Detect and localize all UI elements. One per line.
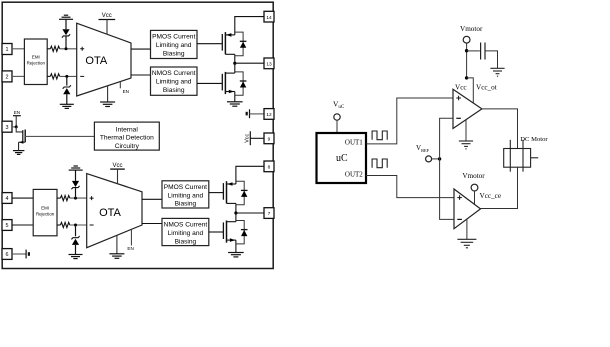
wire PMOS block to Q1 gate: [197, 43, 222, 45]
NMOS Current Limiting and Biasing block (top): [151, 67, 198, 95]
VuC terminal: [334, 114, 340, 120]
wire pin1 to EMI box: [12, 48, 24, 50]
svg-text:Vmotor: Vmotor: [462, 172, 485, 180]
node D: [74, 224, 77, 227]
wire capacitor to ground: [485, 51, 498, 68]
battery cell symbol (pin 12): [247, 109, 250, 118]
Vmotor terminal (top): [463, 36, 470, 43]
wire motor to U2 output: [481, 167, 518, 208]
Vmotor terminal (bottom): [471, 184, 478, 191]
node EN (junction dot): [15, 125, 18, 128]
svg-text:5: 5: [6, 223, 9, 229]
wire NMOS block to Q2 gate: [197, 82, 222, 84]
ground (U1): [459, 120, 473, 149]
wire pin4 to EMI box 2: [12, 197, 33, 199]
wire Q4 source to ground: [235, 240, 237, 252]
body diode D7: [236, 181, 248, 205]
svg-text:9: 9: [268, 137, 271, 143]
zener diode D6: [71, 225, 79, 255]
Vcc rail (OTA2): [110, 163, 125, 184]
wire node to U1 Vcc: [467, 78, 474, 103]
svg-text:6: 6: [6, 252, 9, 258]
wire node to pin 13: [235, 62, 264, 64]
svg-text:EN: EN: [14, 110, 20, 115]
ground (U2): [457, 219, 476, 248]
svg-text:Biasing: Biasing: [163, 87, 185, 94]
node OUT1 (junction dot): [233, 62, 236, 65]
ground (OTA1): [100, 86, 115, 107]
battery cell symbol (pin 6): [26, 250, 29, 259]
pin 7: [264, 208, 274, 219]
svg-text:Rejection: Rejection: [27, 61, 46, 66]
svg-text:8: 8: [268, 165, 271, 171]
IC outer border: [2, 2, 273, 268]
svg-text:12: 12: [266, 112, 272, 118]
svg-text:1: 1: [6, 47, 9, 53]
svg-text:EMI: EMI: [32, 55, 40, 60]
wire node to M1 gate: [16, 127, 22, 132]
transistor Q3 (PMOS): [223, 181, 236, 203]
wire Q2 source to ground: [234, 92, 236, 102]
svg-text:Limiting and: Limiting and: [156, 42, 192, 49]
PWM waveform 1: [372, 131, 387, 140]
PMOS Current Limiting and Biasing block (top): [151, 30, 198, 58]
wire Q1 source to pin 14: [235, 17, 264, 35]
pin 9: [264, 133, 274, 144]
wire Q3 source to pin 8: [236, 166, 264, 184]
svg-text:Vcc: Vcc: [102, 13, 112, 19]
EN stub (OTA1): [120, 82, 129, 94]
op-amp OTA2: [87, 174, 142, 248]
ground (OTA2): [109, 235, 124, 258]
pin 3: [2, 121, 12, 132]
wire pin2 to EMI box: [12, 75, 24, 77]
ground (above D1, inverted): [59, 15, 73, 19]
body diode D3: [235, 32, 247, 56]
wire pin3 to node: [12, 126, 16, 128]
microcontroller uC box: [317, 133, 367, 183]
svg-text:NMOS Current: NMOS Current: [164, 222, 208, 229]
ground (M1 source): [13, 151, 25, 155]
wire pin6 to battery cell: [12, 253, 26, 255]
svg-text:Circuitry: Circuitry: [115, 143, 140, 150]
wire node to pin 7: [236, 212, 264, 214]
svg-text:EMI: EMI: [41, 206, 49, 211]
node A (R1/D1 junction): [65, 47, 68, 50]
svg-text:OTA: OTA: [85, 55, 107, 67]
pin 1: [2, 44, 12, 55]
pin 12: [264, 109, 274, 120]
VREF terminal: [426, 156, 432, 162]
Vcc rail (pin 9): [245, 131, 251, 145]
svg-text:13: 13: [266, 62, 272, 68]
svg-text:PMOS Current: PMOS Current: [152, 34, 195, 41]
wire Q4 drain to node: [235, 213, 237, 222]
resistor R4: [57, 222, 87, 227]
node C: [74, 197, 77, 200]
pin 4: [2, 193, 12, 204]
svg-text:Biasing: Biasing: [163, 50, 185, 57]
wire OUT1 to op-amp U1 +: [366, 98, 453, 144]
op-amp OTA1: [77, 23, 131, 96]
resistor R3: [57, 196, 87, 201]
svg-text:Vcc: Vcc: [112, 163, 122, 169]
node E (junction dot): [465, 49, 468, 52]
pin 14: [264, 11, 274, 22]
wire VREF to node: [432, 158, 440, 160]
svg-text:OUT1: OUT1: [345, 138, 363, 146]
PMOS Current Limiting and Biasing block (bottom): [162, 181, 209, 208]
pin 5: [2, 220, 12, 231]
ground (below D2): [60, 104, 74, 108]
pin 8: [264, 161, 274, 172]
zener diode D5: [71, 170, 79, 198]
wire VuC to uC box: [336, 120, 338, 133]
svg-text:2: 2: [6, 75, 9, 81]
wire U1 output to motor: [482, 109, 518, 149]
resistor R1 (+ input): [47, 46, 76, 51]
op-amp U1: [453, 89, 482, 128]
svg-text:Vmotor: Vmotor: [460, 25, 483, 33]
node F (junction dot): [465, 76, 468, 79]
svg-text:DC Motor: DC Motor: [520, 136, 548, 143]
ground (above D5, inverted): [69, 166, 83, 170]
wire pin5 to EMI box 2: [12, 224, 33, 226]
svg-text:Biasing: Biasing: [175, 201, 197, 208]
ground (Q2 source): [227, 102, 243, 106]
wire Vmotor to U2 Vcc: [474, 191, 476, 205]
EN net flag (pin 3): [13, 110, 21, 127]
EMI Rejection block (bottom channel): [33, 189, 57, 235]
ground (below D6): [69, 255, 83, 259]
wire node to capacitor: [467, 50, 480, 52]
body diode D8: [236, 221, 248, 244]
wire M1 drain to thermal block: [25, 135, 94, 137]
pin 2: [2, 71, 12, 82]
wire Q2 drain to node: [234, 63, 236, 73]
zener diode D1: [62, 19, 70, 49]
pin 6: [2, 249, 12, 260]
svg-text:uC: uC: [336, 153, 348, 164]
ground (C1): [490, 68, 504, 76]
svg-text:Vcc: Vcc: [245, 134, 251, 143]
wire VREF to U1 - and U2 -: [440, 118, 454, 219]
ground (Q4 source): [228, 253, 244, 257]
svg-text:Biasing: Biasing: [175, 238, 197, 245]
svg-text:EN: EN: [127, 246, 133, 251]
NMOS Current Limiting and Biasing block (bottom): [162, 218, 209, 245]
op-amp U2: [454, 189, 481, 229]
svg-text:Limiting and: Limiting and: [156, 79, 192, 86]
wire PMOS block2 to Q3 gate: [209, 192, 223, 194]
svg-text:Vcc_ot: Vcc_ot: [476, 83, 497, 91]
svg-text:Internal: Internal: [116, 126, 139, 133]
wire to pin 12: [250, 113, 265, 115]
wire OUT2 to op-amp U2 +: [366, 176, 454, 198]
wire to pin 9: [250, 137, 264, 139]
resistor R2 (- input): [47, 74, 76, 79]
svg-text:OUT2: OUT2: [345, 171, 363, 179]
capacitor C1: [481, 43, 485, 60]
EMI Rejection block (top channel): [24, 39, 47, 85]
svg-text:Rejection: Rejection: [36, 212, 55, 217]
svg-text:Limiting and: Limiting and: [168, 230, 204, 237]
EN stub (OTA2): [127, 230, 133, 251]
transistor Q1 (PMOS): [222, 32, 235, 54]
PWM waveform 2: [372, 159, 387, 168]
wire Vmotor down: [466, 43, 468, 78]
svg-text:3: 3: [6, 125, 9, 131]
pin 13: [264, 58, 274, 69]
svg-text:EN: EN: [123, 89, 129, 94]
node OUT2 (junction dot): [234, 211, 237, 214]
DC motor M1: [504, 140, 539, 172]
node B (R2/D2 junction): [65, 75, 68, 78]
svg-text:Vcc: Vcc: [455, 83, 467, 91]
transistor M1 (EN switch): [19, 130, 26, 151]
Vcc rail (OTA1): [99, 13, 116, 34]
transistor Q4 (NMOS): [223, 221, 236, 243]
svg-text:PMOS Current: PMOS Current: [164, 184, 207, 191]
wire NMOS block2 to Q4 gate: [209, 231, 223, 233]
wire OTA2 to PMOS block 2: [142, 198, 162, 200]
transistor Q2 (NMOS): [222, 72, 235, 94]
svg-text:Thermal Detection: Thermal Detection: [100, 135, 154, 142]
zener diode D2: [63, 76, 71, 104]
svg-text:7: 7: [268, 211, 271, 217]
svg-text:NMOS Current: NMOS Current: [152, 70, 196, 77]
Internal Thermal Detection Circuitry block: [94, 122, 159, 150]
svg-text:Vcc_ce: Vcc_ce: [480, 192, 502, 200]
svg-text:14: 14: [266, 15, 272, 21]
svg-text:OTA: OTA: [99, 207, 121, 219]
wire OTA1 to PMOS block: [131, 48, 151, 50]
svg-text:4: 4: [6, 196, 9, 202]
node VREF (junction dot): [438, 157, 441, 160]
body diode D4: [235, 72, 247, 95]
wire OTA2 to NMOS block 2: [142, 223, 162, 225]
wire OTA1 to NMOS block: [131, 74, 151, 76]
svg-text:Limiting and: Limiting and: [168, 192, 204, 199]
